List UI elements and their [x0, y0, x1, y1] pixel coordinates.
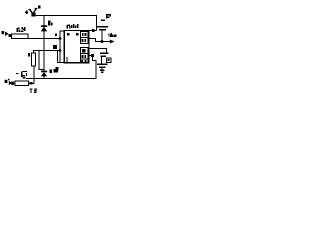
junction dot pin4: [91, 54, 94, 57]
supply symbol X1 (top-left Y antenna symbol): [28, 8, 37, 17]
pin box 4: [81, 54, 89, 60]
resistor R3: [15, 81, 29, 86]
capacitor C1: [97, 26, 108, 31]
label C1 value: [108, 33, 116, 37]
zener D3 blob: [16, 71, 27, 79]
wire pin1: [89, 30, 97, 32]
pin box 5: [81, 59, 89, 63]
label D1: [48, 20, 53, 25]
wire top rail: [33, 16, 97, 31]
bottom rail: [26, 78, 97, 80]
IC U1 box: [64, 31, 89, 63]
wire C1 stub down: [101, 31, 103, 42]
label U1: [66, 24, 78, 28]
diode D1: [43, 16, 45, 27]
capacitor C2: [100, 52, 108, 57]
resistor R1: [12, 34, 29, 38]
wire pin4 to rail: [89, 56, 96, 79]
wire C2 to C3: [101, 57, 103, 64]
label C1 ref: [101, 14, 111, 21]
junction dot: [59, 37, 62, 40]
junction dot: [101, 40, 104, 43]
wire input node: [28, 38, 60, 40]
pin notch inside IC: [66, 57, 68, 63]
label marks: [53, 34, 59, 71]
wire R2 bottom: [33, 66, 35, 84]
wire branch to D2: [39, 51, 44, 70]
wire J2 to riser: [29, 83, 34, 85]
wire IC bottom-left pin: [58, 62, 65, 64]
ground: [101, 68, 103, 70]
wire mid node: [34, 51, 61, 54]
capacitor C3: [97, 64, 107, 69]
label +: [25, 6, 41, 14]
label R2: [28, 53, 30, 56]
label C3 ref box: [107, 58, 111, 62]
pin square A: [67, 33, 70, 36]
wire IC left pin: [60, 31, 64, 63]
output arrow: [110, 40, 115, 44]
diode D2: [41, 71, 48, 77]
label R1: [16, 27, 25, 32]
wire pin3: [89, 49, 107, 53]
label P3: [30, 88, 37, 93]
input terminal J1: [2, 31, 12, 37]
wire stub: [57, 51, 59, 63]
junction dot: [30, 82, 33, 85]
input terminal J2: [5, 79, 15, 85]
pin box 3: [81, 48, 89, 54]
label D2 NF: [50, 69, 58, 73]
resistor R2: [32, 53, 36, 66]
pin box 2: [81, 38, 89, 44]
junction dot: [59, 49, 62, 52]
pin square B: [76, 33, 79, 36]
junction dot pin1: [92, 29, 95, 32]
wire pin2 output: [89, 39, 111, 42]
pin box 1: [81, 32, 89, 38]
wire D1 down branch: [43, 31, 45, 71]
wire D2 to rail: [43, 76, 45, 79]
